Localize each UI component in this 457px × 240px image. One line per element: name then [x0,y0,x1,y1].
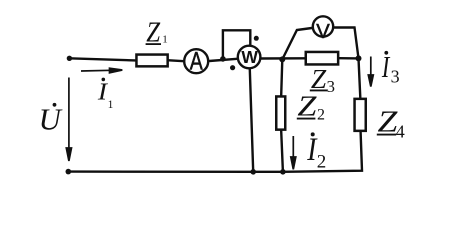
svg-text:3: 3 [391,67,400,87]
svg-text:Z: Z [297,90,316,122]
svg-text:2: 2 [317,151,327,172]
svg-text:3: 3 [327,77,336,96]
svg-text:2: 2 [317,107,325,124]
svg-text:U: U [39,103,63,137]
svg-text:I: I [381,50,390,84]
svg-text:W: W [241,47,258,67]
svg-text:Z: Z [146,16,160,48]
svg-text:4: 4 [396,122,405,142]
svg-text:1: 1 [108,99,114,111]
svg-text:V: V [316,21,330,43]
svg-text:1: 1 [162,34,168,46]
svg-text:A: A [190,47,203,75]
